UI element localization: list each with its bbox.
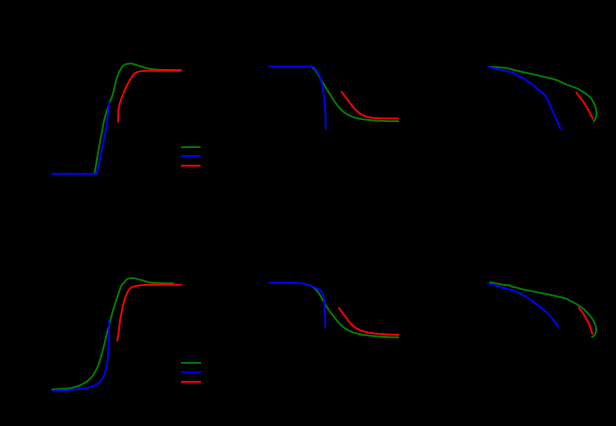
curve blue bottom-left subplot (54, 321, 110, 391)
curve red bottom-left subplot (117, 285, 181, 341)
legend top green line (181, 146, 201, 148)
curve blue top-middle subplot (269, 67, 325, 129)
curve red bottom-middle subplot (339, 308, 398, 335)
curve green bottom-left subplot (52, 278, 173, 390)
curve green top-middle subplot (311, 66, 398, 121)
legend top red line (181, 165, 201, 167)
curve blue bottom-right subplot (488, 283, 558, 327)
curve blue top-left subplot (52, 102, 109, 174)
curve green bottom-right subplot (490, 282, 596, 337)
curve red top-middle subplot (342, 92, 399, 119)
curve red bottom-right subplot (579, 308, 593, 334)
legend top blue line (181, 155, 201, 157)
curve red top-right subplot (576, 93, 592, 119)
curve red top-left subplot (118, 71, 181, 122)
curve green top-left subplot (94, 64, 181, 175)
legend bottom blue line (181, 371, 201, 373)
curve blue bottom-middle subplot (269, 283, 325, 328)
curve green bottom-middle subplot (309, 285, 398, 337)
curve green top-right subplot (488, 67, 596, 122)
legend bottom green line (181, 362, 201, 364)
curve blue top-right subplot (488, 67, 560, 129)
legend bottom red line (181, 381, 201, 383)
